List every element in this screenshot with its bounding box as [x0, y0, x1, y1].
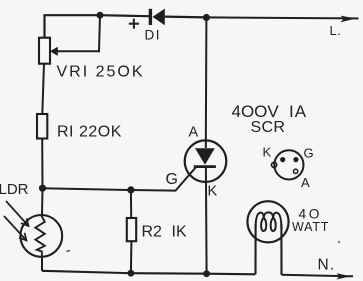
lamp right leg	[280, 224, 282, 275]
LDR zigzag element	[35, 212, 44, 257]
svg-text:WATT: WATT	[292, 220, 329, 234]
wire R1 to LDR node	[41, 139, 43, 189]
arrow L terminal head	[341, 16, 357, 23]
wire LDR node to circle	[41, 188, 44, 215]
wire LDR to bottom rail	[41, 257, 43, 271]
SCR cathode bar	[194, 165, 216, 168]
arrow N terminal head	[337, 273, 351, 279]
wire top rail left segment	[45, 15, 150, 38]
node dot anode branch	[203, 14, 210, 21]
pin K dot	[280, 157, 285, 162]
svg-text:N.: N.	[318, 257, 336, 274]
svg-text:VRI 25OK: VRI 25OK	[57, 63, 145, 80]
pin A ring	[293, 169, 297, 173]
svg-text:K: K	[263, 145, 272, 160]
light arrow 1	[6, 201, 29, 226]
resistor R2 body	[127, 218, 136, 241]
speck near WATT	[338, 241, 341, 244]
wire pot to R1	[42, 64, 44, 115]
svg-text:LDR: LDR	[0, 181, 29, 198]
svg-text:SCR: SCR	[251, 119, 286, 136]
svg-text:R2IK: R2IK	[142, 223, 187, 240]
wire R2 upper lead	[130, 190, 132, 218]
svg-text:K: K	[208, 183, 218, 199]
wire bottom rail	[42, 271, 255, 275]
resistor R1 body	[37, 114, 47, 139]
lamp left leg	[254, 224, 256, 274]
diode D1 cathode bar	[149, 9, 152, 25]
wire top rail diode to node B	[165, 16, 207, 19]
wire bottom to N arrow	[282, 275, 354, 277]
wiper arrow head	[50, 47, 58, 56]
diode D1 triangle	[153, 9, 165, 26]
wire SCR cathode drop	[205, 168, 208, 274]
svg-text:A: A	[301, 175, 310, 190]
lamp circle	[247, 201, 288, 242]
svg-text:G: G	[166, 171, 178, 188]
SCR triangle	[195, 148, 215, 165]
light arrow 2	[4, 216, 27, 241]
wire SCR anode drop	[205, 18, 208, 149]
svg-text:L.: L.	[330, 23, 342, 38]
node dot cathode bottom	[203, 270, 210, 277]
node dot gate-LDR junction	[39, 185, 46, 192]
svg-text:G: G	[304, 146, 314, 161]
svg-text:A: A	[189, 125, 199, 141]
wire top rail to L arrow	[206, 17, 358, 18]
svg-text:DI: DI	[145, 27, 162, 42]
SCR package tab	[272, 162, 277, 167]
node dot R2 bottom	[127, 270, 134, 277]
LDR circle	[20, 215, 62, 257]
wire wiper	[57, 15, 100, 51]
svg-text:RI 22OK: RI 22OK	[57, 123, 122, 140]
speck near LDR	[67, 251, 71, 252]
SCR circle U1	[185, 140, 227, 182]
lamp filament	[256, 212, 282, 231]
potentiometer VR1 body	[39, 38, 50, 64]
pin G dot	[293, 157, 298, 162]
node dot wiper tap	[97, 12, 104, 19]
wire R2 lower lead	[130, 241, 133, 273]
node dot R2 top	[127, 186, 134, 193]
wire gate run	[43, 167, 197, 191]
label + polarity	[129, 19, 139, 29]
SCR package case	[274, 150, 303, 179]
